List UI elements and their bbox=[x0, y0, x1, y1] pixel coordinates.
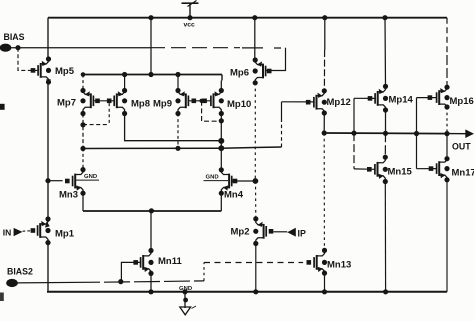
junction Mn13 on ground rail bbox=[322, 289, 327, 294]
junction Mp10 column on y148 line bbox=[218, 145, 224, 151]
wire left column x48 (Mp5 drain to Mn3-gate node to Mp1) bbox=[47, 82, 49, 219]
label GND bulk of Mn4 bbox=[204, 175, 229, 181]
wire node line y133.5 bbox=[324, 132, 447, 135]
junction node x416.5 bbox=[414, 131, 419, 136]
wire Mp12 column down to Mn13 bbox=[323, 133, 325, 250]
wire BIAS to Mp5 gate bbox=[18, 48, 38, 71]
wire quad rail right corner down to Mp10 bbox=[220, 75, 223, 91]
svg-text:Mp16: Mp16 bbox=[450, 96, 474, 107]
wire ground rail bbox=[48, 291, 447, 292]
transistor Mp10 bbox=[202, 88, 251, 116]
terminal BIAS bbox=[0, 32, 25, 52]
svg-text:vcc: vcc bbox=[184, 22, 196, 29]
svg-text:OUT: OUT bbox=[452, 142, 471, 152]
wire Mp12 gate riser x281.5 bbox=[281, 102, 283, 147]
wire Mn3 drain column bbox=[82, 149, 84, 170]
junction Mp9 column on y148 line bbox=[175, 146, 180, 151]
wire Mp6 drain column to Mn4 gate node bbox=[254, 83, 256, 181]
wire node to Mn15 drain bbox=[384, 133, 386, 157]
wire Mp9 source drop bbox=[177, 75, 179, 91]
wire column x255 to Mp2 source bbox=[255, 181, 257, 219]
svg-text:Mn15: Mn15 bbox=[388, 167, 413, 178]
wire tail bus y211 bbox=[83, 210, 221, 212]
wire Mp14 gate wire bbox=[354, 97, 375, 99]
junction Mp8-line end on Mp10 column bbox=[218, 138, 224, 144]
wire tail drop to Mn11 bbox=[150, 211, 152, 251]
junction Mp1 source arrow bbox=[45, 221, 50, 227]
wire gate riser x109 to y124.6 bbox=[108, 103, 110, 125]
wire riser to Mn17 gate bbox=[417, 168, 437, 170]
wire Mp16 drain to OUT node bbox=[446, 107, 448, 134]
wire Mp16/Mn17 gate riser x416.5 bbox=[416, 98, 418, 169]
junction y148 line left end bbox=[80, 146, 85, 151]
svg-text:Mn4: Mn4 bbox=[224, 190, 244, 201]
transistor Mp2 bbox=[231, 216, 274, 246]
junction node x447 (OUT) bbox=[444, 131, 449, 136]
wire Mp16 gate wire bbox=[417, 97, 437, 99]
wire IN to Mp1 gate bbox=[23, 230, 38, 233]
transistor Mn13 bbox=[307, 248, 352, 276]
junction Mn11 gate on BIAS2 line bbox=[118, 279, 123, 284]
svg-text:Mn13: Mn13 bbox=[327, 260, 351, 271]
wire Mn11 gate hook to BIAS2 bbox=[121, 262, 140, 281]
wire OUT node to Mn17 drain bbox=[446, 134, 448, 159]
wire Mp8 source drop bbox=[124, 75, 126, 91]
wire Mn15 source to ground rail bbox=[384, 182, 386, 292]
svg-text:Mp7: Mp7 bbox=[57, 98, 76, 109]
svg-text:Mp2: Mp2 bbox=[231, 227, 250, 238]
wire BIAS2 riser x204 bbox=[203, 263, 205, 281]
junction BIAS node x18 bbox=[15, 45, 20, 50]
wire Mp1 drain to bottom-left corner bbox=[47, 243, 49, 291]
svg-text:Mn17: Mn17 bbox=[452, 168, 474, 179]
wire to OUT terminal bbox=[447, 133, 466, 135]
svg-text:Mn11: Mn11 bbox=[158, 256, 182, 267]
junction on VCC rail x385 bbox=[382, 15, 387, 20]
junction Mn3 gate node on x48 bbox=[45, 178, 50, 183]
wire Mn4 source to tail bus bbox=[220, 193, 222, 211]
svg-text:Mp14: Mp14 bbox=[389, 95, 414, 106]
transistor Mp12 bbox=[306, 88, 351, 115]
junction Mn15 on ground rail bbox=[383, 289, 388, 294]
scan smudge left edge 1 bbox=[0, 104, 5, 110]
wire Mn11 source to ground rail bbox=[150, 273, 152, 291]
svg-text:Mp5: Mp5 bbox=[55, 66, 75, 77]
junction Mp7 drain link bbox=[80, 122, 85, 127]
junction node x354 bbox=[351, 131, 356, 136]
junction Mp5 drain arrow bbox=[46, 79, 51, 84]
junction quad rail x178 bbox=[175, 72, 180, 77]
wire Mp8 drain to y140.5 corner bbox=[125, 114, 222, 141]
wire Mp2 gate to IP bbox=[273, 231, 287, 233]
wire riser to Mn15 gate bbox=[354, 168, 375, 170]
wire VCC drop to Mp14 bbox=[384, 18, 387, 87]
svg-text:Mn3: Mn3 bbox=[59, 190, 78, 201]
junction quad rail x124.6 bbox=[122, 72, 127, 77]
wire Mp7-Mp8 gate link bbox=[93, 100, 114, 102]
junction on VCC rail x190 bbox=[187, 15, 192, 20]
wire Mn3 source to tail bus bbox=[82, 193, 84, 211]
transistor Mp1 bbox=[31, 216, 75, 245]
svg-text:BIAS: BIAS bbox=[4, 32, 25, 42]
svg-text:Mp12: Mp12 bbox=[327, 97, 351, 108]
wire Mp2 drain to ground rail bbox=[255, 244, 257, 292]
transistor Mn4 bbox=[219, 167, 244, 200]
transistor Mn15 bbox=[367, 155, 413, 185]
wire VCC drop to quad rail (x151) bbox=[150, 18, 152, 75]
label GND at ground symbol bbox=[179, 286, 192, 292]
transistor Mn11 bbox=[133, 248, 182, 276]
wire Mp7 drain column to y148 bbox=[82, 114, 84, 149]
junction quad rail x83 bbox=[81, 72, 86, 77]
transistor Mn17 bbox=[429, 156, 474, 182]
transistor Mp7 bbox=[57, 88, 100, 116]
transistor Mp5 bbox=[31, 56, 75, 84]
transistor Mp14 bbox=[368, 84, 414, 113]
label GND bulk of Mn3 bbox=[76, 174, 99, 180]
terminal OUT bbox=[452, 129, 474, 151]
svg-text:Mp8: Mp8 bbox=[131, 98, 150, 109]
junction node x385.5 bbox=[383, 131, 388, 136]
junction Mn11 source on rail bbox=[148, 289, 153, 294]
wire cross link y124.6 to Mp7 drain bbox=[83, 124, 109, 126]
svg-text:Mp6: Mp6 bbox=[230, 67, 249, 78]
svg-text:IN: IN bbox=[3, 228, 12, 238]
wire quad output line y148 to Mp12 gate riser bbox=[83, 147, 282, 149]
wire Mp12 drain to node line bbox=[323, 113, 325, 133]
wire VCC rail right corner down to Mp16 bbox=[446, 18, 448, 87]
transistor Mp16 bbox=[428, 85, 474, 110]
wire Mp6 source drop bbox=[254, 18, 256, 60]
wire BIAS line bbox=[11, 47, 286, 49]
wire quad source rail y74.5 bbox=[83, 74, 222, 76]
svg-text:BIAS2: BIAS2 bbox=[7, 266, 33, 276]
wire quad rail left end down to Mp7 bbox=[82, 75, 84, 91]
junction Mp10 column y121 bbox=[219, 118, 224, 123]
junction on VCC rail x151 bbox=[148, 15, 153, 20]
ground symbol bbox=[180, 289, 196, 315]
junction tail bus center bbox=[149, 208, 154, 213]
svg-text:Mp10: Mp10 bbox=[227, 99, 251, 110]
wire Mn13 source to ground rail bbox=[324, 273, 326, 292]
wire gate riser x202 to y121 bbox=[202, 101, 222, 121]
wire BIAS hook to Mp6 gate bbox=[266, 48, 286, 71]
wire VCC drop to Mp5 source (x48) bbox=[47, 18, 49, 59]
wire Mp14 drain to node line bbox=[385, 110, 387, 133]
wire Mn4 gate wire to x255 bbox=[232, 180, 256, 182]
power VCC symbol bbox=[182, 1, 199, 29]
wire Mp12 gate wire bbox=[282, 101, 314, 103]
transistor Mp6 bbox=[230, 57, 272, 85]
wire Mp10/Mn4 column y113-y170 bbox=[220, 114, 222, 170]
wire BIAS2 line bbox=[18, 281, 205, 283]
svg-text:Mp9: Mp9 bbox=[153, 98, 172, 109]
wire VCC top rail bbox=[48, 17, 447, 19]
wire Mn17 source to ground rail corner bbox=[446, 180, 448, 292]
terminal IP bbox=[287, 228, 306, 239]
junction Mn4 gate node x255 bbox=[253, 178, 259, 184]
wire BIAS2 to Mn13 gate (dashed) bbox=[204, 262, 303, 264]
transistor Mp8 bbox=[107, 88, 150, 116]
svg-text:Mp1: Mp1 bbox=[55, 228, 75, 239]
junction on VCC rail x325 bbox=[322, 15, 327, 20]
junction Mp2 on ground rail bbox=[253, 289, 258, 294]
junction on VCC rail x255 bbox=[252, 15, 257, 20]
junction riser node x201.6 bbox=[199, 99, 203, 103]
junction node line x324 bbox=[322, 130, 327, 135]
svg-text:IP: IP bbox=[298, 229, 306, 239]
transistor Mp9 bbox=[153, 88, 196, 116]
wire Mn3 gate wire bbox=[48, 180, 63, 182]
terminal IN bbox=[3, 228, 23, 238]
svg-text:GND: GND bbox=[84, 174, 97, 180]
wire Mp14/Mn15 gate riser x354 bbox=[353, 98, 355, 169]
scan smudge left edge 2 bbox=[0, 293, 4, 302]
wire VCC drop to Mp12 bbox=[323, 18, 325, 91]
transistor Mn3 bbox=[59, 167, 86, 201]
wire Mp9 drain column to y148 bbox=[177, 114, 179, 149]
svg-text:GND: GND bbox=[206, 175, 219, 181]
wire Mp9-Mp10 gate link bbox=[188, 100, 211, 102]
junction quad rail x151 bbox=[148, 72, 153, 77]
terminal BIAS2 bbox=[6, 266, 33, 287]
